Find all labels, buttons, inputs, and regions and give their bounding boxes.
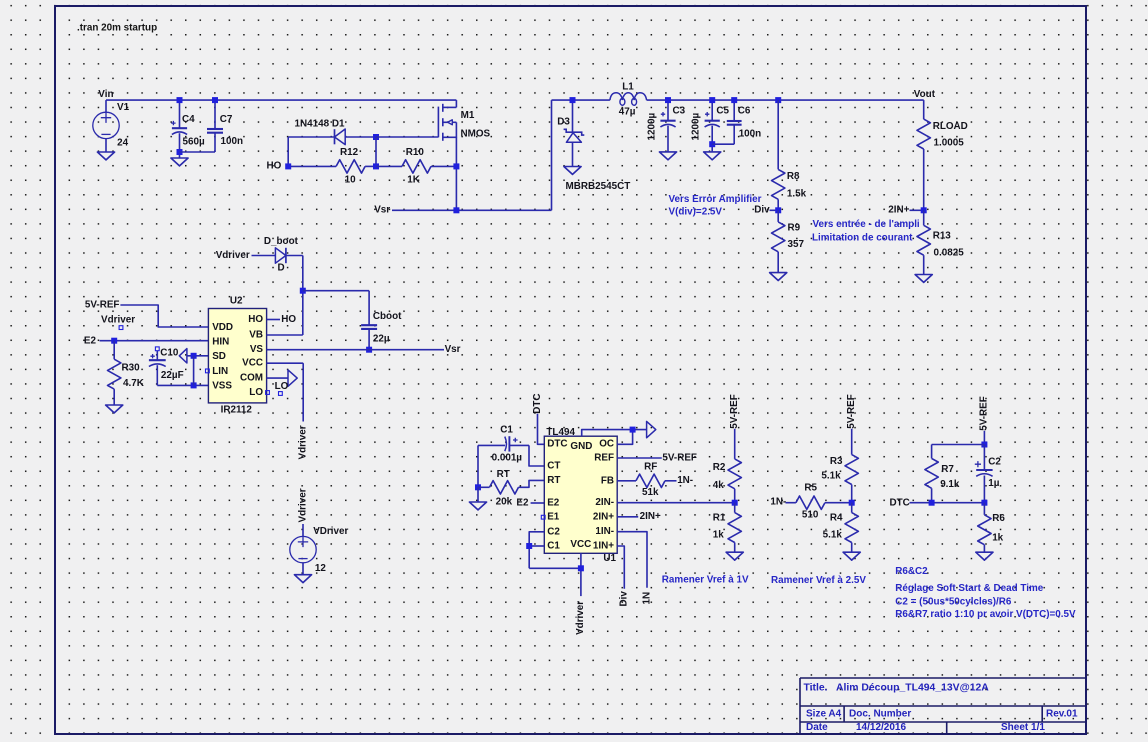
- wire VCC pin U1: [580, 553, 582, 596]
- junction D3 top: [570, 97, 576, 103]
- junction VSS node: [191, 382, 197, 388]
- svg-text:Vout: Vout: [914, 89, 936, 100]
- svg-text:R5: R5: [804, 483, 817, 494]
- svg-text:REF: REF: [594, 453, 614, 464]
- svg-text:Div: Div: [619, 591, 630, 607]
- svg-text:Rev.01: Rev.01: [1046, 708, 1078, 719]
- junction SD node: [191, 353, 197, 359]
- junction C3 top: [665, 97, 671, 103]
- capacitor C7: [214, 100, 216, 129]
- wire D1 anode to gate node: [345, 136, 376, 138]
- capacitor C6: [733, 100, 735, 121]
- svg-text:1k: 1k: [713, 530, 724, 541]
- wire GND pin up: [582, 430, 647, 437]
- resistor R5: [786, 502, 796, 504]
- ground below C5: [704, 152, 721, 160]
- svg-text:VS: VS: [250, 344, 264, 355]
- wire E2 to HIN: [100, 340, 209, 342]
- wire 5V-REF to VDD: [120, 305, 208, 327]
- svg-text:1200µ: 1200µ: [691, 113, 702, 141]
- junction RT-C1-gnd: [475, 484, 481, 490]
- pin LIN open square: [206, 369, 210, 373]
- ground below R6: [976, 552, 993, 560]
- junction R10-source: [453, 163, 459, 169]
- resistor RT: [478, 486, 490, 488]
- svg-text:0.001µ: 0.001µ: [492, 453, 523, 464]
- ground below V1: [97, 152, 114, 160]
- svg-text:.tran 20m startup: .tran 20m startup: [77, 23, 157, 34]
- port flag SD input: [179, 349, 187, 363]
- svg-text:COM: COM: [240, 373, 263, 384]
- svg-text:Vin: Vin: [98, 89, 113, 100]
- wire 5V-REF to node: [983, 431, 985, 445]
- wire OC pin: [617, 430, 632, 445]
- svg-text:12: 12: [315, 563, 326, 574]
- ground below C4: [171, 158, 188, 166]
- svg-text:22µ: 22µ: [373, 333, 390, 344]
- ground below R9: [770, 273, 787, 281]
- svg-text:IR2112: IR2112: [221, 404, 253, 415]
- svg-text:Vsr: Vsr: [445, 344, 461, 355]
- svg-text:R13: R13: [933, 231, 952, 242]
- wire Vin rail: [106, 99, 456, 101]
- wire COM stub: [267, 377, 288, 379]
- svg-text:R6: R6: [992, 513, 1005, 524]
- wire HO up-leg: [287, 137, 289, 166]
- junction output node: [775, 97, 781, 103]
- svg-text:C2: C2: [988, 456, 1001, 467]
- svg-text:DTC: DTC: [532, 394, 543, 414]
- svg-text:D3: D3: [557, 117, 570, 128]
- svg-text:LIN: LIN: [212, 366, 228, 377]
- diode D_boot: [275, 248, 286, 263]
- op-amp U1 TL494 body: [544, 436, 617, 553]
- resistor R9: [777, 210, 779, 222]
- resistor RF: [617, 480, 636, 482]
- junction R7-DTC: [929, 500, 935, 506]
- voltage source V1: [105, 100, 107, 112]
- junction C5 top: [709, 97, 715, 103]
- svg-text:SD: SD: [212, 351, 226, 362]
- wire E2 stub U1: [531, 502, 545, 504]
- ground below VDriver: [294, 575, 311, 583]
- wire 1IN+ down: [617, 546, 624, 589]
- junction C4 top: [177, 97, 183, 103]
- wire REF to 5V-REF: [617, 457, 662, 459]
- svg-text:2IN+: 2IN+: [593, 511, 614, 522]
- resistor R30: [113, 341, 115, 360]
- svg-text:C10: C10: [160, 348, 179, 359]
- svg-text:5V-REF: 5V-REF: [979, 396, 990, 431]
- inductor L1: [610, 93, 647, 100]
- junction VCC node U1: [578, 565, 584, 571]
- svg-text:M1: M1: [461, 110, 475, 121]
- resistor RLOAD: [923, 100, 925, 119]
- svg-text:VDD: VDD: [212, 322, 233, 333]
- wire DTC line: [910, 502, 985, 504]
- svg-text:R10: R10: [406, 147, 425, 158]
- svg-text:1.5k: 1.5k: [787, 188, 807, 199]
- ground below RT node: [477, 487, 479, 502]
- svg-text:HO: HO: [248, 314, 263, 325]
- svg-text:VDriver: VDriver: [313, 526, 348, 537]
- svg-text:0.0825: 0.0825: [934, 248, 965, 259]
- resistor R3: [851, 429, 853, 455]
- svg-text:Limitation de courant: Limitation de courant: [812, 232, 913, 243]
- svg-text:FB: FB: [601, 475, 614, 486]
- wire rail to L1: [552, 99, 610, 101]
- svg-text:1IN-: 1IN-: [595, 526, 614, 537]
- svg-text:Vers entrée - de l'ampli: Vers entrée - de l'ampli: [813, 219, 920, 230]
- svg-text:Vdriver: Vdriver: [575, 601, 586, 635]
- svg-text:C2 = (50us*50cylcles)/R6: C2 = (50us*50cylcles)/R6: [895, 596, 1012, 607]
- svg-text:Vsr: Vsr: [374, 205, 390, 216]
- svg-text:C7: C7: [220, 114, 233, 125]
- svg-text:C4: C4: [182, 114, 195, 125]
- ground below R1: [726, 552, 743, 560]
- svg-text:1N: 1N: [641, 592, 652, 605]
- wire Vsr riser to rail: [551, 100, 553, 210]
- junction C1 pin: [526, 543, 532, 549]
- svg-text:C1: C1: [547, 541, 560, 552]
- svg-text:R1: R1: [713, 513, 726, 524]
- pin LO open square: [266, 391, 270, 395]
- svg-text:Ramener Vref à 1V: Ramener Vref à 1V: [662, 575, 749, 586]
- junction R3-R4-R5: [849, 500, 855, 506]
- capacitor Cboot: [361, 324, 377, 326]
- wire 2IN- to divider: [617, 502, 735, 504]
- svg-text:1N-: 1N-: [770, 496, 786, 507]
- svg-text:VSS: VSS: [212, 381, 232, 392]
- wire M1 source down to Vsr: [455, 137, 457, 210]
- svg-text:Vdriver: Vdriver: [298, 488, 309, 522]
- svg-text:E2: E2: [547, 498, 560, 509]
- svg-text:357: 357: [788, 239, 805, 250]
- svg-text:1N-: 1N-: [677, 475, 693, 486]
- svg-text:510: 510: [802, 510, 819, 521]
- wire HO stub: [267, 319, 280, 321]
- svg-text:R8: R8: [787, 171, 800, 182]
- svg-text:R30: R30: [122, 363, 141, 374]
- wire SD: [187, 355, 209, 357]
- svg-text:1k: 1k: [992, 533, 1003, 544]
- svg-text:NMOS: NMOS: [461, 128, 491, 139]
- capacitor C1 timing: [478, 444, 505, 446]
- resistor R12: [288, 165, 336, 167]
- capacitor C2 softstart: [983, 445, 985, 471]
- svg-text:LO: LO: [249, 387, 263, 398]
- op-amp U2 IR2112 body: [208, 309, 266, 403]
- svg-text:5V-REF: 5V-REF: [662, 452, 697, 463]
- wire DTC: [538, 414, 545, 445]
- svg-text:R6&C2: R6&C2: [895, 566, 928, 577]
- svg-text:D_boot: D_boot: [264, 236, 299, 247]
- svg-text:E1: E1: [547, 512, 560, 523]
- svg-text:TL494: TL494: [546, 427, 575, 438]
- wire C1 left down: [477, 445, 479, 487]
- svg-text:C1: C1: [500, 425, 513, 436]
- junction 2IN+: [921, 207, 927, 213]
- wire Vdriver to D_boot: [252, 255, 276, 257]
- ground below R13: [915, 275, 932, 283]
- svg-text:Cboot: Cboot: [373, 311, 402, 322]
- svg-text:RT: RT: [497, 469, 510, 480]
- voltage source VDriver: [302, 524, 304, 536]
- svg-text:Réglage Soft Start & Dead Time: Réglage Soft Start & Dead Time: [895, 583, 1043, 594]
- svg-text:10: 10: [345, 175, 356, 186]
- resistor R10: [376, 165, 402, 167]
- svg-text:VCC: VCC: [242, 358, 263, 369]
- transistor M1 NMOS: [437, 107, 439, 138]
- capacitor C10: [155, 347, 159, 351]
- junction C7 top: [212, 97, 218, 103]
- svg-text:4.7K: 4.7K: [123, 378, 145, 389]
- svg-text:VB: VB: [249, 329, 263, 340]
- wire VS to Vsr: [267, 349, 444, 351]
- svg-text:RT: RT: [547, 475, 560, 486]
- svg-text:MBRB2545CT: MBRB2545CT: [566, 181, 631, 192]
- svg-text:DTC: DTC: [547, 439, 567, 450]
- svg-text:RF: RF: [644, 462, 657, 473]
- port flag OC output: [647, 421, 656, 437]
- svg-text:2IN-: 2IN-: [595, 497, 614, 508]
- svg-text:Sheet 1/1: Sheet 1/1: [1001, 722, 1045, 733]
- svg-text:51k: 51k: [642, 487, 659, 498]
- wire gate node to M1 gate: [376, 136, 438, 138]
- svg-text:1IN+: 1IN+: [593, 541, 614, 552]
- svg-text:47µ: 47µ: [619, 107, 636, 118]
- svg-text:Vdriver: Vdriver: [101, 315, 135, 326]
- wire C6 bottom to C5: [712, 143, 734, 145]
- junction E2-R30: [111, 338, 117, 344]
- svg-text:2IN+: 2IN+: [640, 511, 661, 522]
- wire SD to VSS link: [193, 356, 195, 386]
- capacitor C4: [179, 100, 181, 128]
- svg-text:R12: R12: [340, 147, 359, 158]
- resistor R1: [734, 503, 736, 513]
- svg-text:HO: HO: [281, 314, 296, 325]
- svg-text:V1: V1: [117, 102, 130, 113]
- diode D3 schottky: [572, 100, 574, 132]
- svg-text:100n: 100n: [221, 136, 244, 147]
- junction R12-R10 node: [373, 163, 379, 169]
- svg-text:560µ: 560µ: [183, 137, 205, 148]
- svg-text:1.0005: 1.0005: [934, 138, 965, 149]
- svg-text:CT: CT: [547, 461, 560, 472]
- wire 2IN+ stub: [617, 516, 638, 518]
- svg-text:20k: 20k: [496, 497, 513, 508]
- svg-text:E2: E2: [516, 497, 529, 508]
- svg-text:Vdriver: Vdriver: [298, 425, 309, 459]
- wire C10 bottom to VSS: [157, 384, 208, 386]
- wire L1 to Vout corner: [647, 99, 924, 101]
- svg-text:R2: R2: [713, 462, 726, 473]
- svg-text:E2: E2: [84, 336, 97, 347]
- junction R2-R1: [732, 500, 738, 506]
- resistor R2: [734, 429, 736, 459]
- wire Vsr line: [392, 209, 552, 211]
- wire gate node down: [375, 137, 377, 166]
- svg-text:VCC: VCC: [570, 539, 591, 550]
- wire VCC U2: [267, 362, 304, 364]
- ground below C3: [659, 152, 676, 160]
- resistor R8: [777, 100, 779, 169]
- svg-text:C2: C2: [547, 526, 560, 537]
- svg-text:24: 24: [117, 138, 128, 149]
- wire C7 to C4 bottom: [180, 151, 216, 153]
- junction Cboot node: [300, 288, 306, 294]
- svg-text:D: D: [278, 262, 285, 273]
- svg-text:Div: Div: [754, 204, 770, 215]
- junction R7-C2 top: [981, 442, 987, 448]
- svg-text:R4: R4: [830, 513, 843, 524]
- svg-text:Size A4: Size A4: [806, 708, 842, 719]
- svg-text:V(div)=2.5V: V(div)=2.5V: [669, 206, 723, 217]
- wire C1 to CT: [529, 445, 544, 466]
- wire C1 pin: [529, 545, 544, 547]
- svg-text:RLOAD: RLOAD: [933, 121, 968, 132]
- wire Cboot branch: [303, 290, 369, 292]
- junction C5 bottom: [709, 141, 715, 147]
- svg-text:R7: R7: [941, 464, 954, 475]
- resistor R6: [983, 503, 985, 515]
- open square LO label: [279, 392, 283, 396]
- svg-text:1N4148 D1: 1N4148 D1: [295, 119, 345, 130]
- junction Cboot-VS: [366, 347, 372, 353]
- svg-text:R3: R3: [830, 456, 843, 467]
- svg-text:1µ: 1µ: [988, 478, 999, 489]
- wire VB: [267, 334, 303, 336]
- svg-text:LO: LO: [275, 381, 289, 392]
- ground below D3: [564, 167, 581, 175]
- wire 1IN- down: [617, 532, 647, 588]
- svg-text:OC: OC: [599, 439, 614, 450]
- capacitor C5: [711, 100, 713, 121]
- svg-text:Ramener Vref à 2.5V: Ramener Vref à 2.5V: [771, 575, 866, 586]
- svg-text:GND: GND: [570, 441, 592, 452]
- svg-text:C3: C3: [673, 106, 686, 117]
- ground below R30: [106, 405, 123, 413]
- wire top to R7: [932, 444, 985, 446]
- svg-text:14/12/2016: 14/12/2016: [856, 722, 906, 733]
- svg-text:5V-REF: 5V-REF: [85, 299, 120, 310]
- svg-text:1K: 1K: [407, 175, 420, 186]
- svg-text:Vers Error Amplifier: Vers Error Amplifier: [669, 194, 762, 205]
- svg-text:5.1k: 5.1k: [823, 530, 843, 541]
- svg-text:U1: U1: [603, 553, 616, 564]
- svg-text:DTC: DTC: [890, 497, 910, 508]
- svg-text:100n: 100n: [739, 128, 762, 139]
- svg-text:5V-REF: 5V-REF: [729, 394, 740, 429]
- open square Vdriver label: [119, 326, 123, 330]
- wire C1C2 to VCC node: [529, 567, 581, 569]
- svg-text:L1: L1: [622, 82, 634, 93]
- diode D1: [335, 129, 346, 145]
- svg-text:2IN+: 2IN+: [888, 205, 909, 216]
- svg-text:Alim Découp_TL494_13V@12A: Alim Découp_TL494_13V@12A: [836, 683, 989, 694]
- resistor R13 shunt: [923, 210, 925, 225]
- port flag COM output: [288, 370, 297, 386]
- junction C6 top: [731, 97, 737, 103]
- wire D_boot cathode to VB node: [286, 255, 303, 257]
- resistor R7: [925, 458, 938, 488]
- svg-text:5.1k: 5.1k: [821, 471, 841, 482]
- junction Vsr: [453, 207, 459, 213]
- ground below R4: [843, 552, 860, 560]
- svg-text:HIN: HIN: [212, 337, 229, 348]
- svg-text:C6: C6: [738, 106, 751, 117]
- svg-text:R6&R7 ratio 1:10 pr avoir V(DT: R6&R7 ratio 1:10 pr avoir V(DTC)=0.5V: [895, 609, 1076, 620]
- svg-text:1200µ: 1200µ: [647, 113, 658, 141]
- pin E1 open square: [541, 515, 545, 519]
- svg-text:Doc. Number: Doc. Number: [849, 708, 911, 719]
- wire C2 pin: [529, 532, 544, 569]
- junction GND-OC: [630, 427, 636, 433]
- junction D1-gate node: [373, 134, 379, 140]
- svg-text:U2: U2: [230, 296, 243, 307]
- svg-text:Title.: Title.: [804, 683, 828, 694]
- svg-text:Vdriver: Vdriver: [216, 250, 250, 261]
- junction C2-R6-DTC: [981, 500, 987, 506]
- svg-text:5V-REF: 5V-REF: [846, 394, 857, 429]
- svg-text:C5: C5: [716, 106, 729, 117]
- title block frame: [800, 678, 1086, 734]
- resistor R4: [851, 503, 853, 513]
- svg-text:HO: HO: [267, 160, 282, 171]
- junction HO node: [285, 163, 291, 169]
- junction C4 bottom: [177, 149, 183, 155]
- capacitor C3: [667, 100, 669, 121]
- svg-text:9.1k: 9.1k: [940, 479, 960, 490]
- svg-text:Date: Date: [806, 722, 828, 733]
- junction Div: [775, 207, 781, 213]
- svg-text:R9: R9: [788, 223, 801, 234]
- svg-text:4k: 4k: [713, 480, 724, 491]
- svg-text:22µF: 22µF: [161, 370, 184, 381]
